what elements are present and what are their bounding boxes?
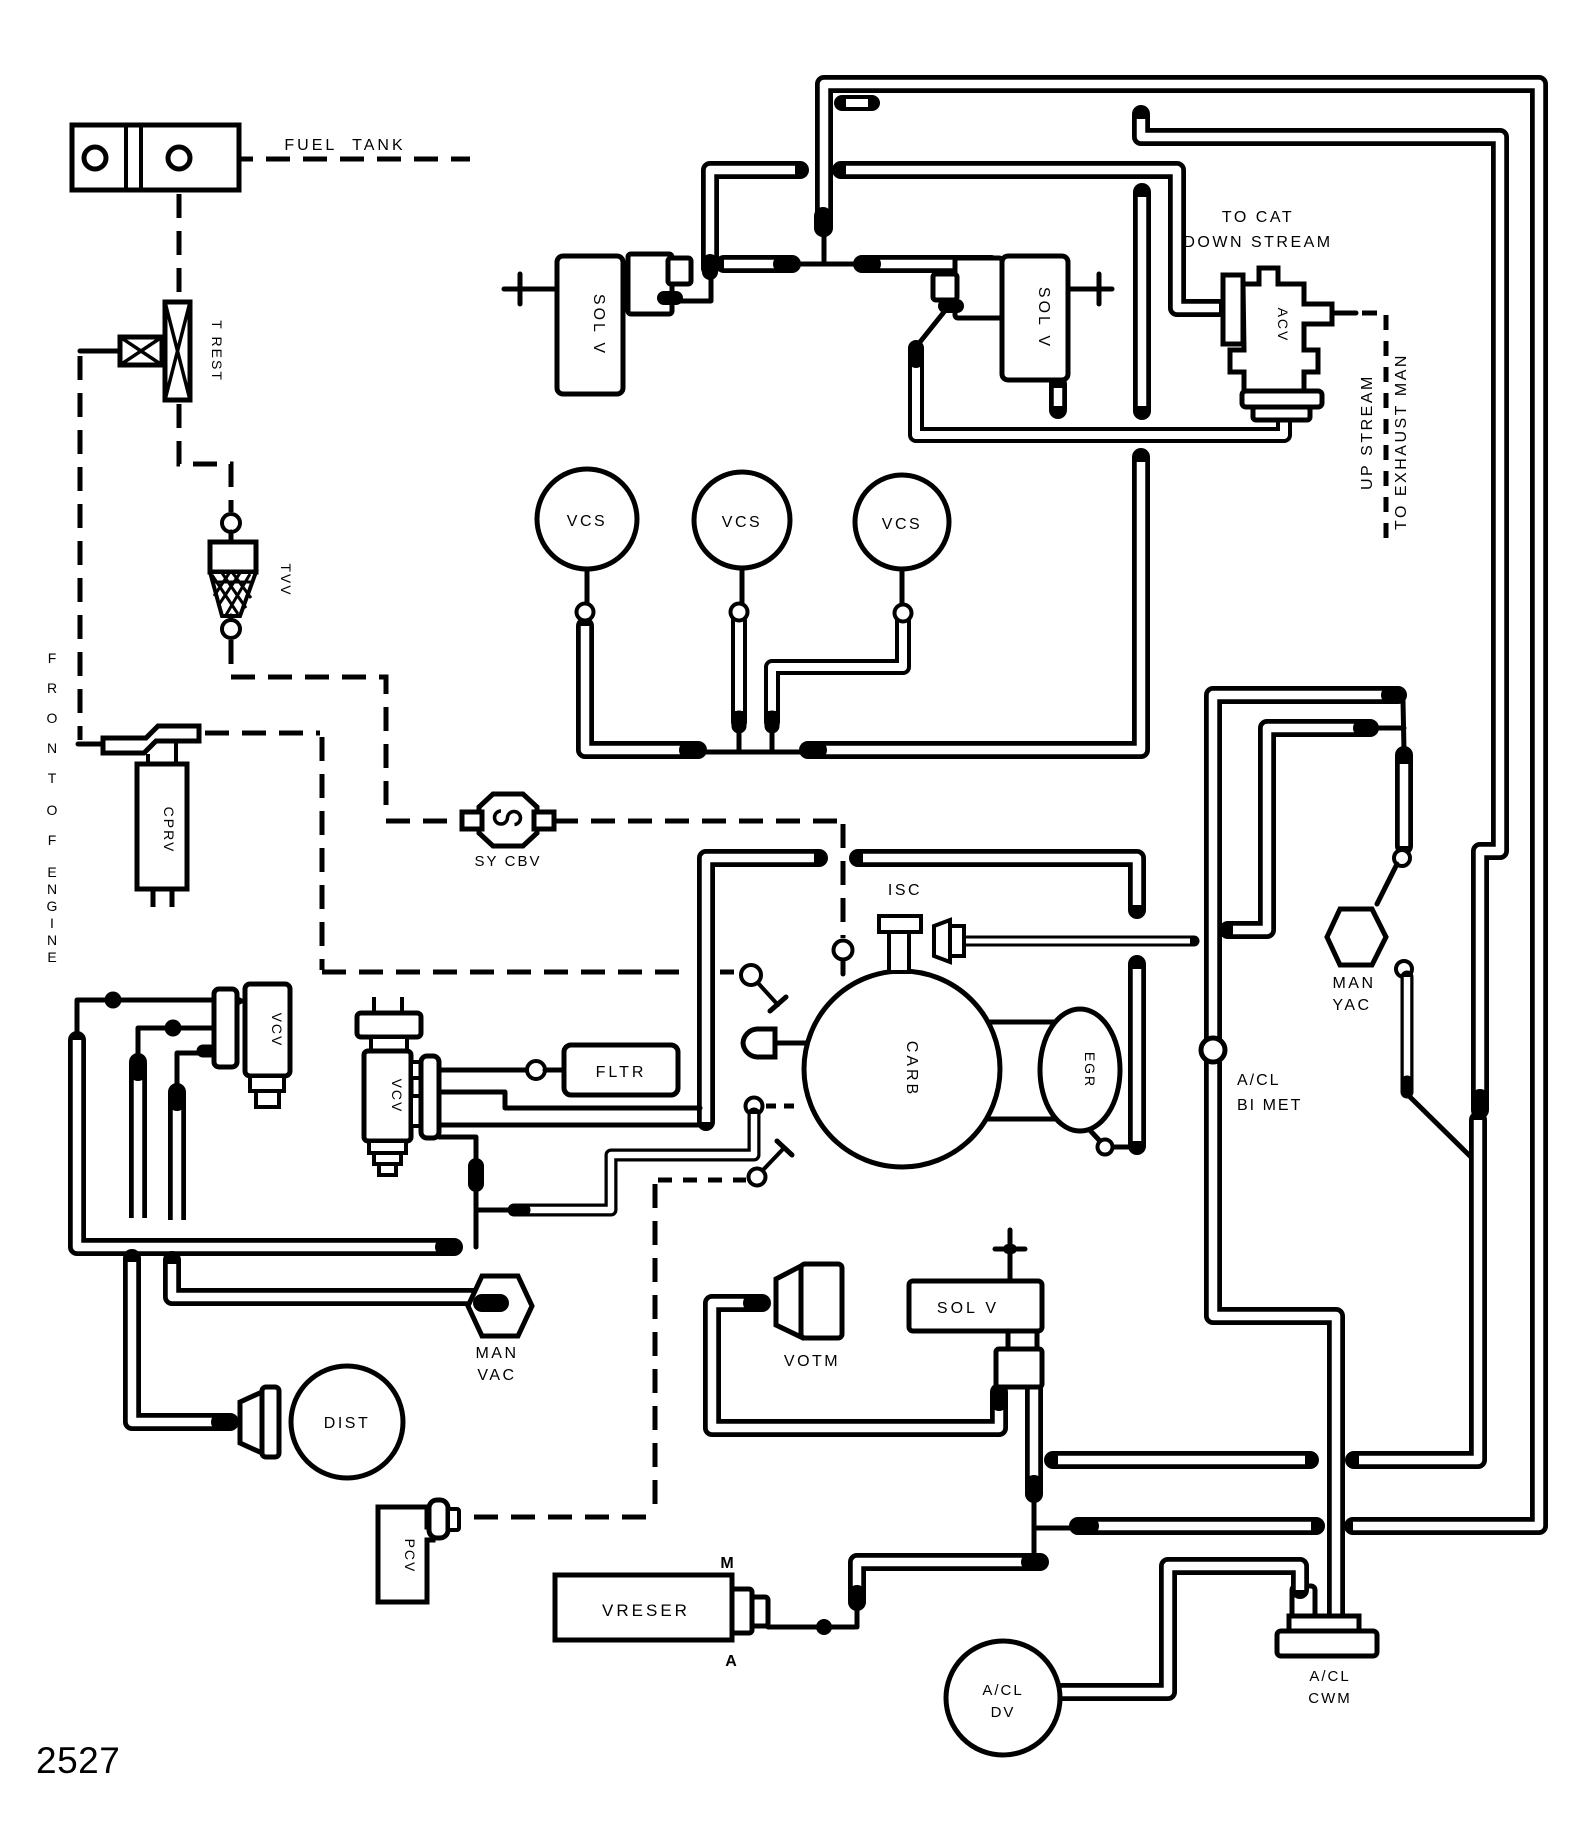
svg-text:BI MET: BI MET xyxy=(1237,1097,1302,1114)
solenoid valve SOL V (bottom) xyxy=(909,1281,1042,1331)
wire: diagonal to Y junction xyxy=(1409,1096,1472,1158)
hose: loop from BI MET tee up and east xyxy=(1228,728,1360,930)
lever lower xyxy=(763,1148,784,1170)
hose: port2 capped drop xyxy=(129,1064,147,1219)
dashed: tank to T REST xyxy=(177,194,182,298)
inline connector ring FLTR xyxy=(527,1061,545,1079)
hose: VCS2 drop xyxy=(731,621,747,722)
manifold vacuum port hexagon (right) xyxy=(1327,909,1386,965)
svg-text:G: G xyxy=(47,898,58,914)
wire: VCS3 lead xyxy=(900,566,905,604)
wire: VCV1 port3 west xyxy=(177,1053,209,1092)
svg-text:DOWN STREAM: DOWN STREAM xyxy=(1183,234,1332,251)
hose: bottom-left continuation of outer loop toward SOL V junction xyxy=(1088,1517,1316,1535)
svg-text:T REST: T REST xyxy=(209,320,225,382)
hose end fitting BI MET east xyxy=(1390,686,1398,704)
junction dot VRESER line xyxy=(816,1619,832,1635)
svg-text:TVV: TVV xyxy=(278,563,294,596)
dashed link ring to carb xyxy=(766,1104,802,1109)
svg-text:TO CAT: TO CAT xyxy=(1222,209,1294,226)
TVV stem bottom xyxy=(229,616,234,621)
hose end fitting inside hexagon xyxy=(482,1294,500,1312)
svg-text:SOL V: SOL V xyxy=(937,1300,999,1317)
vacuum check valve VCV (upper) xyxy=(214,984,290,1107)
dashed: fuel tank line xyxy=(192,157,470,162)
hose end fitting junction west xyxy=(782,255,792,273)
svg-text:N: N xyxy=(47,740,57,756)
wire: T REST left link xyxy=(80,349,118,354)
carb port symbol SOL V1: lead xyxy=(504,287,557,292)
hose: carb-top tee west leg capped xyxy=(706,858,819,1122)
hose: VCS1 drop to manifold xyxy=(585,626,694,750)
wire: riser down to VRESER line xyxy=(855,1600,860,1627)
carb port symbol SOL V2: lead xyxy=(1068,287,1112,292)
vacuum check valve VCV (lower) xyxy=(357,997,439,1175)
hose stub near top-left corner xyxy=(842,95,872,111)
vacuum reservoir VRESER xyxy=(555,1575,732,1640)
hose: feed to distributor xyxy=(132,1258,218,1422)
nipple left of A/CL CWM xyxy=(1292,1586,1315,1620)
wire: VCS2 lead xyxy=(740,565,745,603)
EGR outlet ring xyxy=(1098,1140,1113,1155)
hose tip VCS2 drop xyxy=(732,718,747,726)
hose end fitting at junction xyxy=(1030,1553,1040,1571)
VRESER connector xyxy=(732,1589,768,1633)
svg-text:N: N xyxy=(47,881,57,897)
hose: junction east to SOL V2 connector xyxy=(864,264,991,292)
vacuum control solenoid VCS 3 xyxy=(855,475,949,569)
wire: CPRV arm left link xyxy=(78,742,105,747)
svg-text:VOTM: VOTM xyxy=(784,1353,840,1370)
svg-text:ISC: ISC xyxy=(888,882,922,899)
hose: carb-top tube east of dashed riser xyxy=(858,858,1137,910)
throttle lever ring lower xyxy=(749,1169,766,1186)
carb port symbol SOL V3: lead xyxy=(1008,1230,1013,1281)
distributor DIST xyxy=(240,1366,403,1478)
fuel tank sender unit xyxy=(72,125,239,190)
SOL V1 connector xyxy=(628,254,691,314)
ring below VCS 3 xyxy=(895,605,912,622)
hose: drop from hexagon ring xyxy=(1401,977,1414,1086)
hose end fitting at SOL V1 riser bottom xyxy=(702,262,718,272)
hose stub below SOL V2 xyxy=(1049,384,1067,410)
TVV stem top xyxy=(229,532,234,542)
carb-EGR neck bottom xyxy=(984,1117,1056,1122)
ring below VCS 1 xyxy=(577,604,594,621)
port dot SOL V3 cross xyxy=(1008,1244,1012,1254)
hose end fitting inner loop bottom xyxy=(1471,1098,1489,1110)
vacuum control solenoid VCS 2 xyxy=(694,472,790,568)
hose tip below hexagon xyxy=(1401,1082,1414,1092)
hose: manifold east and up to y435 link xyxy=(810,457,1141,750)
svg-text:E: E xyxy=(47,949,56,965)
svg-text:A/CL: A/CL xyxy=(982,1682,1023,1699)
hose: port3 capped drop xyxy=(168,1094,186,1221)
svg-text:VCV: VCV xyxy=(389,1079,405,1114)
svg-text:CPRV: CPRV xyxy=(161,807,177,854)
dashed: TVV to SY CBV riser xyxy=(231,640,386,812)
ring below VCS 2 xyxy=(731,604,748,621)
dashed: CPRV to choke pull-off (east part) xyxy=(720,970,740,975)
dashed: lever line down to PCV xyxy=(653,1184,658,1515)
throttle modulator VOTM xyxy=(776,1264,842,1338)
wire: SOL V3 drop extension xyxy=(1032,1494,1037,1562)
manifold vacuum port hexagon (left) xyxy=(468,1276,532,1336)
idle speed control ISC xyxy=(879,916,964,972)
wire: VCS3 stub to manifold xyxy=(770,728,775,752)
wire: loop tip to riser xyxy=(1376,726,1404,731)
lever tick upper xyxy=(770,997,786,1011)
port3 fitting at connector xyxy=(203,1045,210,1058)
svg-text:O: O xyxy=(47,802,58,818)
wire: FLTR ring to box xyxy=(545,1068,566,1073)
dashed: T REST to TVV xyxy=(179,404,231,512)
hose: inner loop from riser near ACV across top and down right side xyxy=(1141,114,1500,1100)
hose tip VCS3 drop xyxy=(765,718,780,726)
connector ring carb lower-left xyxy=(746,1098,763,1115)
svg-text:A/CL: A/CL xyxy=(1309,1668,1350,1685)
junction dot port2 xyxy=(165,1020,182,1037)
svg-text:E: E xyxy=(47,864,56,880)
svg-text:FUEL TANK: FUEL TANK xyxy=(284,137,405,154)
wire: VCV2 portC xyxy=(439,1137,476,1162)
wire: VRESER bottom port xyxy=(768,1625,855,1630)
svg-text:ACV: ACV xyxy=(1275,308,1291,343)
svg-text:SY CBV: SY CBV xyxy=(474,853,541,870)
hose: A/CL BI MET run east then down to A/CL CWM xyxy=(1213,695,1396,1622)
svg-text:CARB: CARB xyxy=(903,1041,920,1097)
EGR ring to link tube xyxy=(1113,1145,1130,1150)
connector ring below hexagon xyxy=(1396,961,1412,977)
PCV valve xyxy=(378,1500,459,1602)
hose end fitting manifold west xyxy=(688,741,698,759)
hose: VOTM feed loop to SOL V3 connector xyxy=(712,1303,999,1428)
carb port symbol SOL V3: tick xyxy=(995,1247,1025,1252)
dashed: lower lever west xyxy=(658,1178,746,1183)
carburetor CARB xyxy=(804,971,1000,1167)
hose end fitting manifold east xyxy=(808,741,818,759)
svg-text:DIST: DIST xyxy=(324,1415,370,1432)
wire: VCV2 portB xyxy=(439,1123,710,1128)
air cleaner duct valve A/CL DV xyxy=(946,1641,1060,1755)
wire: VCS1 lead xyxy=(585,566,590,606)
svg-text:I: I xyxy=(50,915,54,931)
svg-text:TO EXHAUST MAN: TO EXHAUST MAN xyxy=(1393,353,1410,530)
svg-text:SOL V: SOL V xyxy=(590,294,607,356)
hose end fitting riser bottom xyxy=(848,1594,866,1602)
hose: A/CL DV to CWM left nipple xyxy=(1058,1566,1300,1692)
valve SY CBV xyxy=(462,794,554,846)
svg-text:FLTR: FLTR xyxy=(596,1064,647,1081)
TVV bottom ring xyxy=(222,620,240,638)
svg-text:CWM: CWM xyxy=(1308,1690,1352,1707)
EGR outlet diagonal xyxy=(1086,1126,1099,1140)
dashed: T REST left leg xyxy=(78,356,83,740)
dashed: SY CBV east xyxy=(554,819,838,824)
carb-EGR neck top xyxy=(984,1020,1058,1025)
hose end fitting port2 top xyxy=(129,1062,147,1072)
hose: vertical link below TO CAT line xyxy=(1133,192,1151,411)
svg-text:N: N xyxy=(47,932,57,948)
dashed: CPRV riser xyxy=(320,737,325,970)
hose end fitting SOL V3 drop xyxy=(1025,1484,1043,1494)
carb vent ring xyxy=(834,941,853,960)
hose: outer loop from solenoid junction up across top and down right side to SOL V bottom line xyxy=(824,84,1539,1526)
wire: junction vertical xyxy=(822,228,827,264)
solenoid valve SOL V (right) xyxy=(1002,256,1068,380)
hose: feed to left MAN VAC hexagon xyxy=(172,1260,486,1297)
hose end fitting S-tube xyxy=(514,1204,524,1217)
dashed: CPRV to choke pull-off (west part) xyxy=(322,970,692,975)
wire: thumb to carb xyxy=(776,1041,806,1046)
svg-text:2527: 2527 xyxy=(36,1740,120,1781)
carb port symbol SOL V1: tick xyxy=(518,274,523,304)
dashed: ACV to exhaust xyxy=(1362,313,1386,545)
wire: branch to bottom loop xyxy=(1034,1526,1078,1531)
hose end fitting junction east xyxy=(862,255,872,273)
hose: continuation east to ACV left flange xyxy=(841,170,1219,308)
svg-text:VCS: VCS xyxy=(567,513,607,530)
svg-text:PCV: PCV xyxy=(402,1539,418,1574)
svg-text:VAC: VAC xyxy=(477,1367,516,1384)
vacuum control solenoid VCS 1 xyxy=(537,469,637,569)
EGR valve xyxy=(1040,1009,1120,1131)
valve T REST xyxy=(120,302,190,400)
hose: Y junction down and west to A/CL CWM feed xyxy=(1354,1120,1478,1460)
wire: VCV2 to FLTR xyxy=(439,1068,527,1073)
dashed: PCV east xyxy=(474,1515,652,1520)
svg-text:O: O xyxy=(47,710,58,726)
wire: SOL V2 lower port diagonal xyxy=(920,312,944,342)
carb vent stem xyxy=(841,960,846,974)
hose end fitting long run east xyxy=(444,1238,454,1256)
svg-text:DV: DV xyxy=(991,1704,1016,1721)
wire: VCV2 portA xyxy=(439,1092,700,1108)
svg-text:VCS: VCS xyxy=(882,516,922,533)
svg-text:YAC: YAC xyxy=(1332,997,1371,1014)
dashed: riser to carb vent xyxy=(841,824,846,938)
hose tip loop east xyxy=(1362,719,1370,737)
wire: VCS2 stub to manifold xyxy=(737,728,742,752)
wire: riser to hexagon xyxy=(1377,864,1397,904)
svg-text:A: A xyxy=(725,1653,737,1670)
svg-text:SOL V: SOL V xyxy=(1035,287,1052,349)
svg-text:VCS: VCS xyxy=(722,514,762,531)
hose end fitting at distributor cone xyxy=(220,1413,230,1431)
hose: EGR vertical link xyxy=(1128,964,1146,1146)
svg-text:F: F xyxy=(48,832,57,848)
wire: S-tube tail xyxy=(478,1208,514,1213)
lever tick lower xyxy=(777,1141,792,1155)
junction dot port1 xyxy=(105,992,122,1009)
filter FLTR xyxy=(564,1045,678,1095)
fitting on portC drop xyxy=(468,1166,484,1184)
choke pull-off ring upper xyxy=(741,965,761,985)
hose: SOL V2 lower port down and east to ACV base xyxy=(916,350,1284,435)
hose: SOL V3 drop east leg to CWM center xyxy=(1053,1451,1310,1469)
svg-text:T: T xyxy=(48,770,57,786)
TVV top ring xyxy=(222,514,240,532)
solenoid valve SOL V (left) xyxy=(557,256,623,394)
hose end fitting at SOL V2 lower port xyxy=(908,348,924,360)
svg-text:A/CL: A/CL xyxy=(1237,1072,1281,1089)
hose: SOL V1 connector up and right (west segment) xyxy=(710,170,800,268)
hose: ISC outlet line xyxy=(964,936,1194,947)
air control valve ACV xyxy=(1223,268,1332,420)
dashed: CPRV east xyxy=(205,731,320,736)
valve CPRV xyxy=(103,726,199,907)
hose: man-vac riser xyxy=(1395,764,1413,846)
connector ring man-vac riser bottom xyxy=(1394,850,1410,866)
wire: portC drop to long run xyxy=(474,1184,479,1247)
wire: ACV nipple lead xyxy=(1332,311,1356,316)
svg-text:EGR: EGR xyxy=(1082,1052,1098,1088)
sensor ball A/CL BI MET xyxy=(1201,1038,1225,1062)
hose: reservoir riser to junction xyxy=(857,1562,1036,1598)
wire: BI MET fitting down xyxy=(1403,701,1404,750)
hose: junction west to SOL V1 connector xyxy=(724,255,786,273)
SOL V3 connector xyxy=(996,1331,1042,1387)
dashed: SY CBV west xyxy=(386,819,462,824)
svg-text:VRESER: VRESER xyxy=(602,1601,690,1620)
hose end fitting port3 top xyxy=(168,1092,186,1102)
svg-text:MAN: MAN xyxy=(475,1345,518,1362)
carb bowl vent fitting (thumb) xyxy=(743,1029,775,1057)
hose end fitting at outer loop lower-left xyxy=(1078,1517,1090,1535)
svg-text:MAN: MAN xyxy=(1332,975,1375,992)
hose fitting top of riser xyxy=(1395,755,1413,762)
wire: VCV1 port2 west xyxy=(138,1028,214,1062)
hose: SOL V3 connector drop xyxy=(1025,1388,1043,1488)
hose end fitting at VOTM xyxy=(752,1294,762,1312)
lever upper pull-off xyxy=(758,983,778,1005)
hose end fitting at outer loop top-left above junction xyxy=(814,216,832,228)
svg-text:UP STREAM: UP STREAM xyxy=(1359,374,1376,490)
wire: SOL V1 lower port link xyxy=(680,278,711,301)
carb port symbol SOL V2: tick xyxy=(1097,274,1102,304)
wire: junction horizontal xyxy=(792,262,864,267)
svg-text:VCV: VCV xyxy=(269,1013,285,1048)
air cleaner cold weather modulator A/CL CWM xyxy=(1277,1616,1377,1656)
hose end fitting at SOL V3 connector xyxy=(990,1392,1008,1402)
svg-text:M: M xyxy=(720,1555,733,1572)
hose: VCS3 drop jog xyxy=(772,621,903,722)
wire: VCV1 port1 west xyxy=(77,1000,214,1038)
hose: S-tube from carb ring down to capped end xyxy=(520,1114,754,1210)
hose: port1 down and long east run xyxy=(77,1040,448,1247)
wire: manifold junction line xyxy=(700,750,808,755)
SOL V2 connector xyxy=(933,258,1002,318)
svg-text:R: R xyxy=(47,680,57,696)
svg-text:F: F xyxy=(48,650,57,666)
